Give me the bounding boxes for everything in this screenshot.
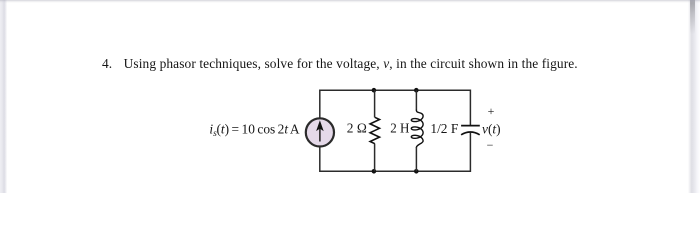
wire left branch upper <box>319 90 321 119</box>
svg-text:1/2 F: 1/2 F <box>430 121 458 136</box>
wire left branch lower <box>319 147 321 172</box>
top hairline <box>0 0 700 3</box>
wire inductor branch upper <box>415 90 417 110</box>
svg-text:v(t): v(t) <box>482 121 501 136</box>
node dot bottom resistor <box>372 169 377 174</box>
svg-text:2 H: 2 H <box>390 121 410 136</box>
svg-text:2 Ω: 2 Ω <box>347 121 367 136</box>
wire bottom rail <box>320 170 471 172</box>
svg-text:−: − <box>487 138 494 152</box>
resistor R 2ohm zigzag <box>370 117 379 143</box>
svg-text:is(t) = 10 cos 2t A: is(t) = 10 cos 2t A <box>209 121 299 139</box>
inductor L 2H coil <box>411 110 423 147</box>
wire right branch lower <box>469 132 471 172</box>
wire top rail <box>320 89 471 91</box>
wire resistor branch upper <box>374 90 376 117</box>
wire resistor branch lower <box>374 144 376 172</box>
current source IS body <box>306 118 334 146</box>
node dot bottom inductor <box>414 169 419 174</box>
node dot top resistor <box>372 88 377 93</box>
capacitor C top plate <box>461 125 480 127</box>
right page-edge shading <box>688 0 700 193</box>
wire inductor branch lower <box>415 147 417 171</box>
problem statement text <box>102 56 578 72</box>
svg-text:+: + <box>488 104 495 118</box>
left page-edge shading <box>0 0 8 193</box>
current source IS arrow <box>317 121 323 141</box>
right-edge scrollbar thumb top <box>690 0 695 34</box>
label is(t) = 10 cos 2t A <box>209 121 299 139</box>
node dot top inductor <box>414 88 419 93</box>
capacitor C curved bottom plate <box>461 132 480 135</box>
wire right branch upper <box>469 90 471 126</box>
